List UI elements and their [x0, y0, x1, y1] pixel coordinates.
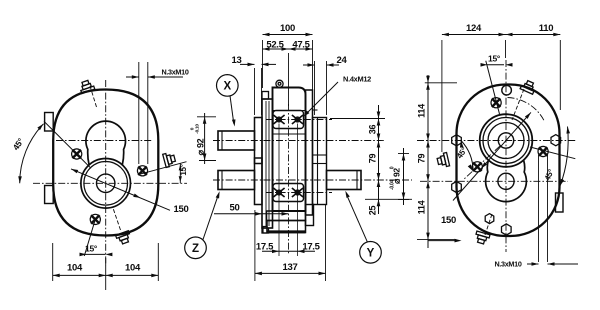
svg-text:25: 25 — [368, 206, 378, 216]
svg-text:Y: Y — [367, 247, 375, 259]
svg-text:N.3xM10: N.3xM10 — [161, 68, 188, 77]
svg-text:X: X — [223, 81, 231, 93]
svg-text:-0.10: -0.10 — [195, 124, 201, 134]
svg-text:150: 150 — [174, 204, 189, 215]
svg-text:79: 79 — [368, 154, 378, 164]
svg-text:104: 104 — [67, 263, 83, 274]
svg-text:Z: Z — [192, 243, 199, 255]
svg-text:15°: 15° — [488, 54, 501, 64]
svg-text:17.5: 17.5 — [302, 241, 320, 252]
svg-text:N.3xM10: N.3xM10 — [494, 260, 521, 269]
svg-text:17.5: 17.5 — [256, 241, 274, 252]
svg-text:15°: 15° — [85, 244, 98, 254]
svg-text:50: 50 — [230, 203, 240, 214]
svg-text:-0.04: -0.04 — [390, 180, 396, 190]
svg-text:15°: 15° — [179, 164, 188, 175]
svg-text:124: 124 — [466, 23, 482, 34]
svg-text:100: 100 — [280, 23, 295, 34]
svg-text:110: 110 — [539, 23, 553, 34]
svg-text:N.4xM12: N.4xM12 — [343, 75, 371, 84]
svg-text:13: 13 — [232, 55, 242, 66]
svg-text:114: 114 — [417, 104, 427, 118]
svg-text:150: 150 — [441, 215, 456, 226]
svg-text:47.5: 47.5 — [292, 39, 310, 50]
svg-text:24: 24 — [337, 55, 348, 66]
svg-text:36: 36 — [368, 125, 378, 135]
svg-text:114: 114 — [417, 200, 427, 214]
svg-text:52.5: 52.5 — [266, 39, 284, 50]
svg-text:137: 137 — [283, 262, 298, 273]
svg-text:⌀ 92: ⌀ 92 — [196, 138, 206, 155]
svg-text:79: 79 — [417, 154, 427, 164]
svg-text:104: 104 — [125, 263, 141, 274]
